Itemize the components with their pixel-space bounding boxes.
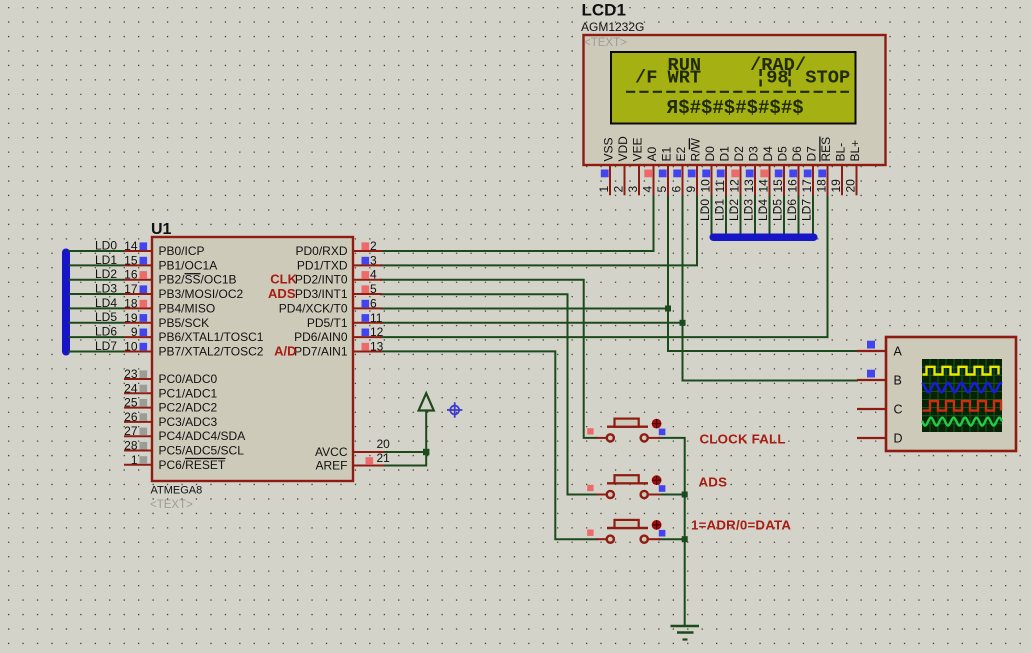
svg-text:AREF: AREF xyxy=(315,459,347,473)
svg-text:13: 13 xyxy=(370,339,384,353)
wire LCD D4 (pin 14) to bus xyxy=(769,195,771,239)
svg-text:23: 23 xyxy=(124,367,138,381)
svg-text:20: 20 xyxy=(843,179,857,193)
svg-text:LD1: LD1 xyxy=(713,199,727,221)
svg-text:PB1/OC1A: PB1/OC1A xyxy=(159,258,218,272)
U1 pin 5 (PD3/INT1) xyxy=(295,282,382,301)
svg-text:BL+: BL+ xyxy=(848,140,862,162)
svg-text:D5: D5 xyxy=(776,146,790,162)
svg-text:D4: D4 xyxy=(761,146,775,162)
svg-text:28: 28 xyxy=(124,439,138,453)
svg-text:18: 18 xyxy=(124,296,138,310)
svg-text:¦: ¦ xyxy=(784,67,795,89)
svg-text:A0: A0 xyxy=(645,146,659,161)
svg-text:10: 10 xyxy=(698,179,712,193)
origin marker crosshair xyxy=(447,402,462,417)
wire U1 PD4/XCK/T0 to E1 junction xyxy=(380,308,668,310)
U1 pin 19 (PB5/SCK) xyxy=(124,311,209,330)
svg-text:4: 4 xyxy=(640,186,654,193)
LCD1 pin 17 (D7) xyxy=(800,165,814,195)
svg-text:C: C xyxy=(894,403,903,417)
svg-text:PB4/MISO: PB4/MISO xyxy=(159,301,216,315)
junction AVCC xyxy=(423,449,429,455)
svg-text:PC4/ADC4/SDA: PC4/ADC4/SDA xyxy=(159,429,246,443)
oscilloscope screen xyxy=(922,359,1002,432)
svg-text:RES: RES xyxy=(819,137,833,162)
svg-text:14: 14 xyxy=(124,239,138,253)
svg-text:AVCC: AVCC xyxy=(315,445,348,459)
svg-text:16: 16 xyxy=(785,179,799,193)
svg-text:LD5: LD5 xyxy=(95,310,117,324)
wire E1 net: LCD pin5 down to scope A xyxy=(668,195,858,352)
svg-text:17: 17 xyxy=(124,282,138,296)
LCD1 pin 13 (D3) xyxy=(742,165,756,195)
svg-text:B: B xyxy=(894,374,902,388)
svg-text:PB3/MOSI/OC2: PB3/MOSI/OC2 xyxy=(159,287,244,301)
wire E2 net: LCD pin6 down to scope B xyxy=(683,195,859,381)
wire LD1 bus to U1 PB1 xyxy=(68,264,124,266)
U1 pin 25 (PC2/ADC2) xyxy=(124,396,218,415)
svg-text:<TEXT>: <TEXT> xyxy=(150,499,193,511)
svg-text:5: 5 xyxy=(370,282,377,296)
svg-text:6: 6 xyxy=(370,296,377,310)
LCD1 pin 12 (D2) xyxy=(727,165,741,195)
svg-text:15: 15 xyxy=(124,253,138,267)
U1 pin 27 (PC4/ADC4/SDA) xyxy=(124,424,245,443)
svg-text:19: 19 xyxy=(124,311,138,325)
wire U1 PD3/INT1 (ADS) to button ADS xyxy=(380,294,598,494)
U1 pin 12 (PD6/AIN0) xyxy=(294,325,384,344)
wire LCD D5 (pin 15) to bus xyxy=(783,195,785,239)
svg-text:E2: E2 xyxy=(674,146,688,161)
svg-text:PD5/T1: PD5/T1 xyxy=(307,316,348,330)
svg-text:PD7/AIN1: PD7/AIN1 xyxy=(294,344,348,358)
wire 1=ADR button right terminal to rail xyxy=(658,538,685,540)
svg-text:E1: E1 xyxy=(660,146,674,161)
wire VCC to AVCC and AREF xyxy=(384,411,426,466)
wire LD0 bus to U1 PB0 xyxy=(68,250,124,252)
svg-text:ADS: ADS xyxy=(699,475,728,490)
wire U1 PD2/INT0 (CLK) to button CLOCK FALL xyxy=(380,280,598,438)
svg-text:D7: D7 xyxy=(805,146,819,162)
svg-text:ADS: ADS xyxy=(268,286,296,301)
svg-text:<TEXT>: <TEXT> xyxy=(584,37,627,49)
wire ADS button right terminal to rail xyxy=(658,494,685,496)
U1 pin 15 (PB1/OC1A) xyxy=(124,253,217,272)
LCD1 screen xyxy=(611,52,856,124)
svg-text:VEE: VEE xyxy=(631,137,645,161)
svg-text:19: 19 xyxy=(829,179,843,193)
U1 pin 28 (PC5/ADC5/SCL) xyxy=(124,439,244,458)
svg-text:/F: /F xyxy=(635,67,657,89)
svg-text:LD3: LD3 xyxy=(95,282,117,296)
wire LCD D1 (pin 11) to bus xyxy=(725,195,727,239)
junction E1/PD4 xyxy=(665,306,671,312)
svg-text:PD4/XCK/T0: PD4/XCK/T0 xyxy=(279,301,348,315)
scope trace A yellow square wave xyxy=(923,367,999,375)
push button 1=ADR/0=DATA xyxy=(587,520,665,543)
svg-text:14: 14 xyxy=(756,179,770,193)
LCD1 pin 4 (A0) xyxy=(640,165,654,195)
svg-text:PB2/SS/OC1B: PB2/SS/OC1B xyxy=(159,273,237,287)
U1 pin 13 (PD7/AIN1) xyxy=(294,339,384,358)
U1 pin 14 (PB0/ICP) xyxy=(124,239,205,258)
svg-text:PC1/ADC1: PC1/ADC1 xyxy=(159,386,218,400)
oscilloscope pin B xyxy=(857,370,902,388)
U1 pin 1 (PC6/RESET) xyxy=(124,453,226,472)
wire LCD D7 (pin 17) to bus xyxy=(812,195,814,239)
svg-text:LD5: LD5 xyxy=(771,199,785,221)
LCD1 pin 11 (D1) xyxy=(713,165,727,195)
U1 pin 26 (PC3/ADC3) xyxy=(124,410,218,429)
U1 pin 16 (PB2/SS/OC1B) xyxy=(124,268,237,287)
scope trace B blue sine xyxy=(922,383,1002,392)
svg-text:LD4: LD4 xyxy=(756,199,770,221)
svg-text:2: 2 xyxy=(370,239,377,253)
U1 pin 3 (PD1/TXD) xyxy=(297,253,382,272)
LCD1 pin 20 (BL+) xyxy=(843,165,857,195)
svg-text:LD7: LD7 xyxy=(95,339,117,353)
svg-text:18: 18 xyxy=(814,179,828,193)
bus LD0-LD7 (U1 side) xyxy=(62,249,70,356)
svg-text:16: 16 xyxy=(124,268,138,282)
U1 pin 9 (PB6/XTAL1/TOSC1) xyxy=(124,325,264,344)
svg-text:12: 12 xyxy=(727,179,741,193)
LCD1 pin 15 (D5) xyxy=(771,165,785,195)
svg-text:PC3/ADC3: PC3/ADC3 xyxy=(159,415,218,429)
wire LD3 bus to U1 PB3 xyxy=(68,293,124,295)
svg-text:CLOCK FALL: CLOCK FALL xyxy=(700,432,786,447)
wire LD4 bus to U1 PB4 xyxy=(68,307,124,309)
svg-text:20: 20 xyxy=(377,437,391,451)
U1 pin 21 (AREF) xyxy=(315,451,390,473)
svg-text:U1: U1 xyxy=(151,221,172,238)
svg-text:1: 1 xyxy=(597,186,611,193)
IC U1 ATMEGA8 body xyxy=(152,237,353,481)
svg-text:5: 5 xyxy=(655,186,669,193)
svg-text:25: 25 xyxy=(124,396,138,410)
svg-text:PD0/RXD: PD0/RXD xyxy=(295,244,347,258)
LCD1 pin 16 (D6) xyxy=(785,165,799,195)
U1 pin 23 (PC0/ADC0) xyxy=(124,367,218,386)
U1 pin 4 (PD2/INT0) xyxy=(295,268,382,287)
power symbol VCC arrow xyxy=(419,393,434,410)
svg-text:WRT: WRT xyxy=(668,67,702,89)
svg-text:PD3/INT1: PD3/INT1 xyxy=(295,287,348,301)
wire LD2 bus to U1 PB2 xyxy=(68,279,124,281)
svg-text:LD2: LD2 xyxy=(95,267,117,281)
svg-text:LD6: LD6 xyxy=(95,325,117,339)
svg-text:PB6/XTAL1/TOSC1: PB6/XTAL1/TOSC1 xyxy=(159,330,264,344)
LCD1 pin 1 (VSS) xyxy=(597,165,611,195)
svg-text:STOP: STOP xyxy=(805,67,850,89)
svg-text:Я$#$#$#$#$#$: Я$#$#$#$#$#$ xyxy=(667,97,804,119)
svg-text:LD0: LD0 xyxy=(698,199,712,221)
overline on RESET of PC6 xyxy=(185,458,226,460)
svg-text:PD2/INT0: PD2/INT0 xyxy=(295,273,348,287)
wire LCD D6 (pin 16) to bus xyxy=(798,195,800,239)
LCD1 pin 10 (D0) xyxy=(698,165,712,195)
junction rail/1=ADR xyxy=(682,536,688,542)
svg-text:PC2/ADC2: PC2/ADC2 xyxy=(159,401,218,415)
wire LCD pin9 R/W to U1 PD1/TXD xyxy=(380,195,697,266)
oscilloscope pin A xyxy=(857,341,903,359)
U1 pin 17 (PB3/MOSI/OC2) xyxy=(124,282,244,301)
svg-text:LD1: LD1 xyxy=(95,253,117,267)
svg-text:VDD: VDD xyxy=(616,136,630,162)
svg-text:9: 9 xyxy=(684,186,698,193)
svg-text:D0: D0 xyxy=(703,146,717,162)
svg-text:CLK: CLK xyxy=(270,272,297,287)
wire LCD D2 (pin 12) to bus xyxy=(740,195,742,239)
svg-text:D6: D6 xyxy=(790,146,804,162)
scope trace D green sine xyxy=(922,418,1002,426)
LCD1 pin 3 (VEE) xyxy=(626,165,640,195)
svg-text:LD4: LD4 xyxy=(95,296,117,310)
svg-text:3: 3 xyxy=(370,253,377,267)
push button ADS xyxy=(587,475,665,498)
LCD1 pin 6 (E2) xyxy=(669,165,683,195)
svg-text:2: 2 xyxy=(611,186,625,193)
svg-text:ATMEGA8: ATMEGA8 xyxy=(151,485,203,497)
svg-text:LD7: LD7 xyxy=(800,199,814,221)
svg-text:PD6/AIN0: PD6/AIN0 xyxy=(294,330,348,344)
wire LD6 bus to U1 PB6 xyxy=(68,336,124,338)
svg-text:LD6: LD6 xyxy=(785,199,799,221)
wire U1 PD6/AIN0 to LCD pin18 RES xyxy=(380,195,828,338)
oscilloscope pin C xyxy=(857,403,903,417)
svg-text:11: 11 xyxy=(713,180,727,193)
svg-text:D3: D3 xyxy=(747,146,761,162)
svg-text:24: 24 xyxy=(124,381,138,395)
U1 pin 20 (AVCC) xyxy=(315,437,390,459)
svg-text:1: 1 xyxy=(131,453,138,467)
LCD1 pin 9 (R/W) xyxy=(684,165,698,195)
U1 pin 6 (PD4/XCK/T0) xyxy=(279,296,382,315)
svg-text:PD1/TXD: PD1/TXD xyxy=(297,258,348,272)
U1 pin 24 (PC1/ADC1) xyxy=(124,381,218,400)
svg-text:3: 3 xyxy=(626,186,640,193)
LCD1 pin 14 (D4) xyxy=(756,165,770,195)
svg-text:12: 12 xyxy=(370,325,384,339)
wire LD5 bus to U1 PB5 xyxy=(68,322,124,324)
svg-text:A: A xyxy=(894,345,903,359)
svg-text:1=ADR/0=DATA: 1=ADR/0=DATA xyxy=(691,518,791,533)
svg-text:AGM1232G: AGM1232G xyxy=(581,20,644,34)
wire LCD D0 (pin 10) to bus xyxy=(711,195,713,239)
overline on SS of PB2 xyxy=(185,273,201,275)
svg-text:10: 10 xyxy=(124,339,138,353)
svg-text:PB0/ICP: PB0/ICP xyxy=(159,244,205,258)
svg-text:13: 13 xyxy=(742,179,756,193)
svg-text:BL-: BL- xyxy=(834,143,848,162)
svg-text:11: 11 xyxy=(370,311,383,325)
U1 pin 11 (PD5/T1) xyxy=(307,311,383,330)
U1 pin 18 (PB4/MISO) xyxy=(124,296,215,315)
push button CLOCK FALL xyxy=(587,419,665,442)
svg-text:LD3: LD3 xyxy=(742,199,756,221)
LCD1 pin 19 (BL-) xyxy=(829,165,843,195)
svg-text:9: 9 xyxy=(131,325,138,339)
svg-text:PB7/XTAL2/TOSC2: PB7/XTAL2/TOSC2 xyxy=(159,344,264,358)
svg-text:A/D: A/D xyxy=(274,343,296,358)
svg-text:17: 17 xyxy=(800,179,814,193)
wire ground rail from buttons to ground xyxy=(658,438,685,626)
U1 pin 2 (PD0/RXD) xyxy=(295,239,382,258)
wire U1 PD7/AIN1 (A/D) to button 1=ADR/0=DATA xyxy=(380,351,598,539)
svg-text:VSS: VSS xyxy=(602,137,616,161)
LCD1 pin 2 (VDD) xyxy=(611,165,625,195)
svg-text:LCD1: LCD1 xyxy=(582,1,626,20)
bus LD0-LD7 (LCD side) xyxy=(710,234,818,242)
svg-text:PC5/ADC5/SCL: PC5/ADC5/SCL xyxy=(159,444,245,458)
wire LD7 bus to U1 PB7 xyxy=(68,350,124,352)
svg-text:PC0/ADC0: PC0/ADC0 xyxy=(159,372,218,386)
svg-text:D: D xyxy=(894,432,903,446)
junction rail/ADS xyxy=(682,492,688,498)
svg-text:PC6/RESET: PC6/RESET xyxy=(159,458,226,472)
oscilloscope pin D xyxy=(857,432,903,446)
svg-text:LD0: LD0 xyxy=(95,239,117,253)
oscilloscope body xyxy=(886,337,1016,451)
svg-text:R/W: R/W xyxy=(689,138,703,162)
svg-text:PB5/SCK: PB5/SCK xyxy=(159,316,210,330)
svg-text:LD2: LD2 xyxy=(727,199,741,221)
svg-text:21: 21 xyxy=(377,451,391,465)
wire LCD pin4 A0 to U1 PD0/RXD xyxy=(380,195,654,252)
svg-text:D1: D1 xyxy=(718,146,732,162)
svg-text:6: 6 xyxy=(669,186,683,193)
overline on RES xyxy=(819,137,821,162)
LCD1 pin 18 (RES) xyxy=(814,165,828,195)
LCD display LCD1 xyxy=(584,35,886,165)
svg-text:15: 15 xyxy=(771,179,785,193)
U1 pin 10 (PB7/XTAL2/TOSC2) xyxy=(124,339,264,358)
wire U1 PD5/T1 to E2 junction xyxy=(380,322,683,324)
svg-text:D2: D2 xyxy=(732,146,746,162)
LCD text row3 dashes xyxy=(626,91,849,93)
svg-text:26: 26 xyxy=(124,410,138,424)
junction E2/PD5 xyxy=(680,320,686,326)
ground symbol xyxy=(671,626,700,640)
scope trace C red square wave xyxy=(923,401,1002,411)
svg-text:4: 4 xyxy=(370,268,377,282)
overline on W of R/W xyxy=(688,138,690,149)
wire LCD D3 (pin 13) to bus xyxy=(754,195,756,239)
svg-text:27: 27 xyxy=(124,424,138,438)
LCD1 pin 5 (E1) xyxy=(655,165,669,195)
